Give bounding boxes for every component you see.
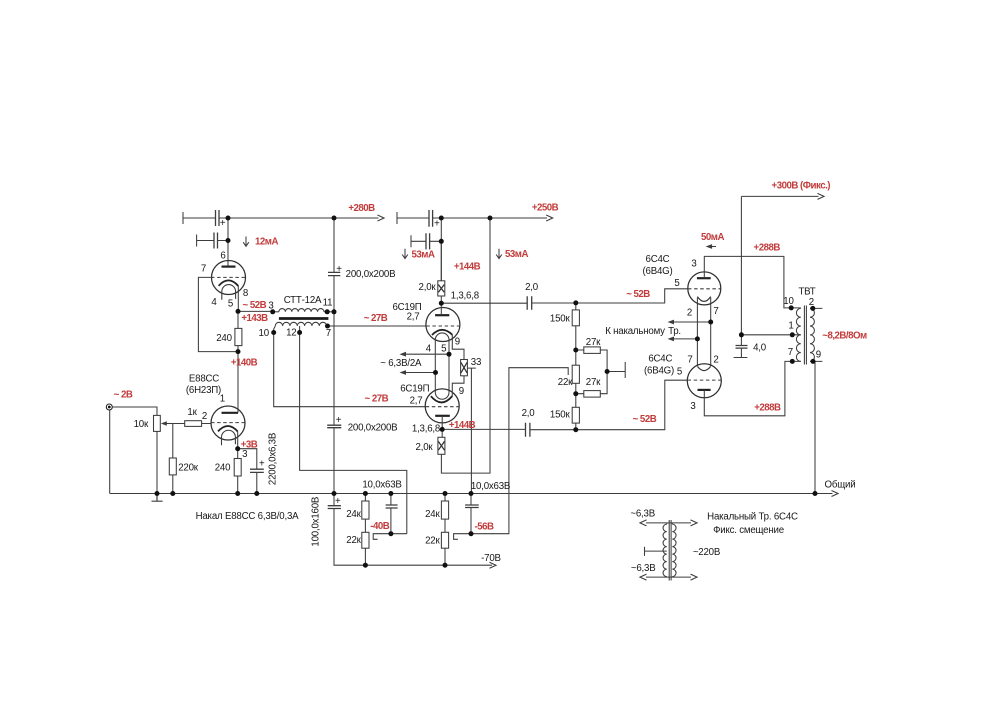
svg-text:~ 27В: ~ 27В — [364, 394, 388, 405]
svg-text:СТТ-12А: СТТ-12А — [284, 295, 322, 306]
svg-text:9: 9 — [816, 350, 821, 361]
svg-text:240: 240 — [215, 463, 231, 474]
svg-text:-56В: -56В — [475, 522, 495, 533]
svg-text:2: 2 — [202, 411, 207, 422]
svg-text:+: + — [335, 496, 341, 507]
svg-text:Накал Е88СС 6,3В/0,3А: Накал Е88СС 6,3В/0,3А — [196, 511, 300, 522]
svg-text:1: 1 — [788, 321, 793, 332]
svg-text:22к: 22к — [558, 377, 573, 388]
svg-text:6: 6 — [220, 251, 225, 262]
svg-text:53мА: 53мА — [412, 250, 435, 261]
svg-text:5: 5 — [441, 344, 446, 355]
svg-text:+280В: +280В — [348, 203, 375, 214]
svg-text:+144В: +144В — [449, 420, 476, 431]
svg-text:200,0х200В: 200,0х200В — [346, 269, 396, 280]
svg-text:9: 9 — [459, 386, 464, 397]
svg-text:-70В: -70В — [481, 553, 501, 564]
svg-text:~220В: ~220В — [693, 547, 720, 558]
svg-text:4,0: 4,0 — [753, 343, 767, 354]
svg-text:~6,3В: ~6,3В — [631, 563, 656, 574]
svg-text:Фикс. смещение: Фикс. смещение — [713, 525, 784, 536]
svg-text:+143В: +143В — [241, 313, 268, 324]
svg-text:3: 3 — [268, 301, 273, 312]
svg-text:2,0к: 2,0к — [416, 442, 434, 453]
svg-text:53мА: 53мА — [505, 249, 528, 260]
svg-text:100,0х160В: 100,0х160В — [311, 497, 322, 547]
svg-text:2: 2 — [687, 307, 692, 318]
svg-text:10,0х63В: 10,0х63В — [362, 480, 401, 491]
svg-text:+288В: +288В — [754, 243, 781, 254]
svg-text:~8,2В/8Ом: ~8,2В/8Ом — [822, 330, 867, 341]
svg-text:(6В4G): (6В4G) — [644, 366, 674, 377]
svg-text:+250В: +250В — [532, 203, 559, 214]
svg-text:10: 10 — [259, 328, 270, 339]
svg-text:10: 10 — [783, 296, 794, 307]
svg-text:+: + — [220, 218, 226, 229]
svg-text:7: 7 — [788, 347, 793, 358]
svg-text:ТВТ: ТВТ — [798, 286, 815, 297]
svg-text:5: 5 — [674, 278, 679, 289]
svg-text:4: 4 — [426, 344, 432, 355]
svg-text:150к: 150к — [550, 314, 571, 325]
svg-text:11: 11 — [323, 298, 333, 309]
svg-text:~ 6,3В/2А: ~ 6,3В/2А — [380, 358, 422, 369]
svg-text:+144В: +144В — [454, 262, 481, 273]
svg-text:(6Н23П): (6Н23П) — [186, 385, 221, 396]
svg-text:~ 52В: ~ 52В — [633, 414, 657, 425]
svg-text:1,3,6,8: 1,3,6,8 — [412, 423, 440, 434]
svg-text:2,0к: 2,0к — [419, 282, 437, 293]
svg-text:7: 7 — [713, 306, 718, 317]
svg-text:22к: 22к — [346, 535, 361, 546]
svg-text:1,3,6,8: 1,3,6,8 — [451, 290, 479, 301]
svg-text:2,0: 2,0 — [522, 408, 536, 419]
svg-text:~ 27В: ~ 27В — [364, 313, 388, 324]
svg-text:6С4С: 6С4С — [648, 354, 672, 365]
svg-text:12: 12 — [286, 328, 296, 339]
svg-text:2: 2 — [809, 297, 814, 308]
svg-text:+: + — [336, 415, 342, 426]
svg-text:2,7: 2,7 — [407, 312, 420, 323]
svg-text:+: + — [434, 219, 440, 230]
svg-text:~ 2В: ~ 2В — [114, 390, 133, 401]
svg-text:2,7: 2,7 — [410, 395, 423, 406]
svg-text:Тр.: Тр. — [668, 326, 681, 337]
svg-text:~6,3В: ~6,3В — [630, 508, 655, 519]
svg-text:7: 7 — [201, 264, 206, 275]
svg-text:27к: 27к — [586, 337, 601, 348]
svg-text:50мА: 50мА — [701, 232, 724, 243]
svg-text:240: 240 — [216, 333, 232, 344]
svg-text:К накальному: К накальному — [605, 326, 665, 337]
svg-text:2200,0х6,3В: 2200,0х6,3В — [268, 433, 279, 485]
svg-text:1к: 1к — [187, 407, 197, 418]
svg-text:Е88СС: Е88СС — [189, 374, 219, 385]
svg-text:24к: 24к — [425, 509, 440, 520]
svg-text:2: 2 — [713, 354, 718, 365]
svg-text:+: + — [336, 264, 342, 275]
svg-text:5: 5 — [677, 367, 682, 378]
svg-text:10,0х63В: 10,0х63В — [471, 481, 510, 492]
svg-text:9: 9 — [455, 336, 460, 347]
svg-text:+: + — [259, 459, 265, 470]
svg-text:6С19П: 6С19П — [400, 383, 429, 394]
svg-text:Накальный Тр. 6С4С: Накальный Тр. 6С4С — [707, 511, 798, 522]
svg-text:3: 3 — [691, 259, 696, 270]
svg-text:Общий: Общий — [825, 480, 856, 491]
svg-text:+300В (Фикс.): +300В (Фикс.) — [772, 181, 831, 192]
svg-text:33: 33 — [471, 357, 481, 368]
svg-text:(6В4G): (6В4G) — [642, 266, 672, 277]
svg-text:8: 8 — [243, 288, 248, 299]
svg-text:~ 52В: ~ 52В — [626, 289, 650, 300]
svg-text:27к: 27к — [586, 377, 601, 388]
svg-text:-40В: -40В — [370, 521, 390, 532]
svg-text:3: 3 — [690, 401, 695, 412]
svg-text:10к: 10к — [134, 419, 149, 430]
svg-text:6С4С: 6С4С — [646, 254, 670, 265]
svg-text:150к: 150к — [550, 410, 571, 421]
svg-text:4: 4 — [211, 297, 217, 308]
svg-text:7: 7 — [687, 354, 692, 365]
svg-text:220к: 220к — [178, 462, 199, 473]
svg-text:1: 1 — [220, 394, 225, 405]
svg-text:5: 5 — [228, 299, 233, 310]
svg-text:22к: 22к — [425, 536, 440, 547]
svg-text:7: 7 — [326, 328, 331, 339]
svg-text:~ 52В: ~ 52В — [242, 300, 266, 311]
svg-text:200,0х200В: 200,0х200В — [348, 423, 398, 434]
svg-text:3: 3 — [242, 449, 247, 460]
svg-text:2,0: 2,0 — [525, 282, 539, 293]
svg-text:24к: 24к — [346, 509, 361, 520]
svg-text:+140В: +140В — [231, 358, 258, 369]
svg-text:+288В: +288В — [754, 402, 781, 413]
svg-text:12мА: 12мА — [255, 237, 278, 248]
